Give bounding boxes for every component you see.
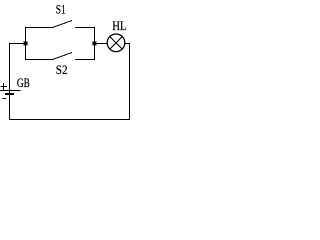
lamp HL circle — [107, 34, 125, 52]
svg-text:S2: S2 — [56, 62, 68, 77]
svg-text:HL: HL — [112, 18, 126, 33]
wire bottom branch right lead (from S2) — [75, 59, 95, 61]
wire left rail of parallel branches — [25, 27, 27, 60]
switch S2 blade — [53, 53, 73, 60]
wire top branch right lead (from S1) — [75, 27, 95, 29]
polarity plus sign — [1, 83, 8, 90]
svg-text:S1: S1 — [56, 2, 66, 17]
lamp HL cross — [110, 37, 123, 50]
wire right node to lamp — [94, 43, 107, 45]
wire right rail of parallel branches — [94, 27, 96, 60]
svg-text:GB: GB — [17, 75, 30, 90]
switch S1 blade — [53, 21, 73, 28]
wire bottom branch left lead (to S2) — [25, 59, 53, 61]
battery GB positive plate (long) — [0, 90, 21, 92]
wire bottom return — [9, 119, 130, 121]
battery GB negative plate (short thick) — [5, 93, 14, 95]
polarity minus sign — [3, 98, 7, 100]
wire left node to battery branch — [9, 43, 25, 45]
node left junction dot — [24, 42, 28, 46]
wire left vertical through battery — [9, 43, 11, 120]
wire right vertical — [129, 43, 131, 120]
node right junction dot — [93, 42, 97, 46]
wire lamp to right vertical — [125, 43, 130, 45]
wire top branch left lead (to S1) — [25, 27, 53, 29]
